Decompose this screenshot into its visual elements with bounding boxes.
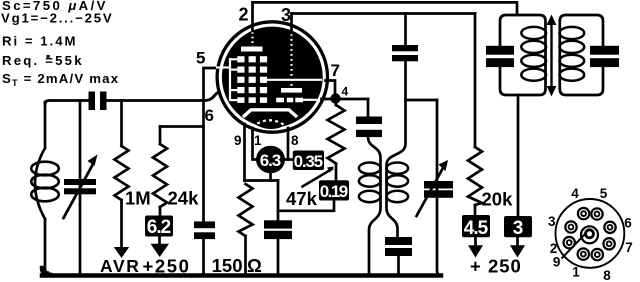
arrow to +250 right [474,237,477,245]
heater voltage circle 6.3 [256,146,285,174]
svg-text:3: 3 [281,5,291,25]
svg-text:Vg1=−2...−25V: Vg1=−2...−25V [1,11,113,26]
variable capacitor C8 [437,100,441,276]
wire pin8 [287,128,290,160]
svg-text:9: 9 [553,255,561,270]
svg-text:6.2: 6.2 [147,217,172,238]
svg-text:6: 6 [205,106,214,125]
svg-text:4: 4 [342,85,349,99]
tube U1 internal electrodes (white on black) [216,32,322,127]
series grid capacitor C2 [89,92,96,111]
capacitor C9 [486,46,514,55]
wire pin2 to top rail [251,2,254,31]
svg-text:+250: +250 [143,256,191,277]
svg-text:0.19: 0.19 [320,182,349,201]
wire tank top [45,101,88,105]
triode anode bar [241,47,263,52]
wire heater to cathode net [269,173,272,180]
resistor R5 20k [474,14,477,148]
grid to pin4 line [303,99,318,101]
variable capacitor C1 [79,101,82,274]
svg-text:5: 5 [600,186,608,201]
wire pin4 node [322,98,369,101]
svg-text:5: 5 [196,49,205,68]
node dot [330,93,340,103]
socket pins [564,208,616,260]
svg-text:1: 1 [254,133,262,148]
wire osc section [406,99,438,102]
current box 3 [517,95,520,216]
cathode [243,110,297,117]
svg-text:Ω: Ω [247,255,262,276]
svg-text:1M: 1M [125,188,151,209]
capacitor C6 IF secondary top [404,14,407,46]
wire pin6 [204,92,219,101]
svg-text:20k: 20k [482,189,514,210]
IFT1 primary coil [368,137,381,273]
wire pin5 stub [204,68,217,101]
svg-text:ST = 2mA/V max: ST = 2mA/V max [2,71,119,88]
IFT2 left loop [500,15,546,95]
svg-text:Ri = 1.4M: Ri = 1.4M [2,34,78,49]
wire grid line [107,93,219,101]
bottom ground rail [42,268,441,276]
capacitor C7 [385,237,412,245]
svg-text:4.5: 4.5 [464,218,489,239]
hexode anode bar [281,88,302,93]
svg-text:0.35: 0.35 [294,152,324,171]
arrow to AVR [114,247,129,258]
socket base diagram [556,199,625,268]
tube U1 envelope [217,22,327,132]
resistor R1 1M [120,101,123,147]
grid g1/g3 dash grid [237,56,267,103]
cathode capacitor C4 [264,220,292,228]
svg-text:8: 8 [603,268,611,282]
resistor R3 150ohm [239,184,253,236]
tuning arrow [550,23,552,88]
pin2 internal dashed lead [251,32,253,46]
current box 6.2 [145,216,173,237]
pin3 internal dashed lead [290,34,292,86]
svg-text:+ 250: + 250 [470,256,522,277]
svg-text:AVR: AVR [100,256,140,276]
antenna coil L1 [44,102,47,148]
svg-text:8: 8 [291,133,299,148]
svg-text:7: 7 [625,240,633,255]
svg-text:24k: 24k [168,188,200,209]
arrow to +250 [158,237,161,245]
svg-text:1: 1 [572,265,580,280]
resistor R2 24k [160,125,204,128]
svg-text:47k: 47k [286,188,318,209]
svg-text:3: 3 [548,214,556,229]
IFT2 right loop [560,15,603,95]
svg-text:Req. =55k: Req. =55k [2,53,84,68]
wire pin9 [243,124,246,181]
capacitor C5 IF primary [367,99,370,117]
svg-text:7: 7 [331,61,340,80]
capacitor C10 [590,46,619,55]
svg-text:9: 9 [234,133,242,148]
capacitor C3 grid decoupling [202,102,205,221]
IFT2 left coil [521,27,546,39]
wire pin1 [253,128,258,160]
IFT2 right coil [559,27,584,39]
resistor R4 47k [335,104,338,105]
grid to pin7 line [267,79,322,81]
grid left connector lines [216,34,322,101]
svg-text:6: 6 [624,216,632,231]
socket key line [562,233,587,259]
current box 0.35 [293,151,324,171]
svg-text:3: 3 [513,218,524,239]
socket center spigot [581,226,598,243]
current box 0.19 [319,180,349,200]
svg-text:150: 150 [212,255,243,276]
heater dashed arc [252,120,287,127]
variable arrow on R4 [303,169,333,187]
wire 0.19 to cathode cap [278,201,334,211]
svg-text:4: 4 [571,186,579,201]
IFT1 secondary coil [387,61,406,237]
hexode grid dashes [276,98,303,103]
svg-text:2: 2 [238,5,248,25]
current box 4.5 [462,215,490,237]
wire pin7 [326,81,336,95]
svg-text:6.3: 6.3 [260,151,282,170]
wire pin3 rail [290,14,293,34]
